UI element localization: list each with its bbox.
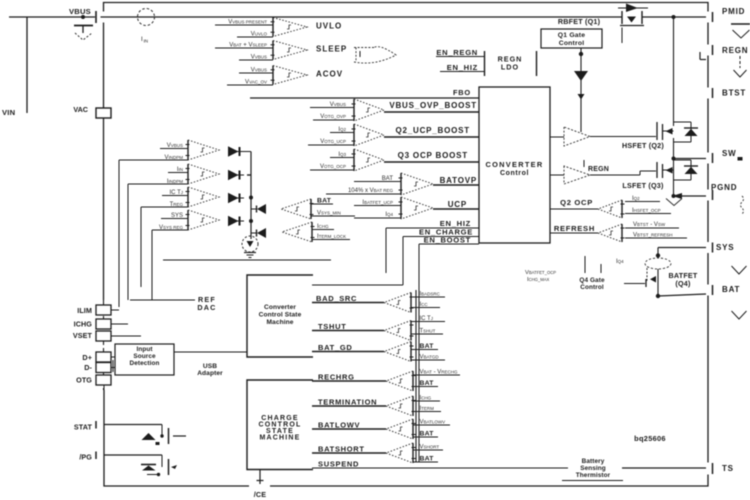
svg-text:VOTG_UCP: VOTG_UCP bbox=[320, 139, 346, 145]
wire SW stub bbox=[738, 157, 743, 161]
svg-text:HSFET (Q2): HSFET (Q2) bbox=[622, 141, 664, 150]
svg-text:SYS: SYS bbox=[716, 243, 734, 252]
box Q1 Gate Control bbox=[541, 29, 602, 48]
svg-text:LDO: LDO bbox=[501, 63, 519, 72]
comparator Q3 OCP BOOST bbox=[353, 149, 355, 171]
wire VBUS rail bbox=[101, 16, 623, 18]
svg-text:BAT: BAT bbox=[722, 285, 740, 294]
comparator VBUS_OVP_BOOST bbox=[353, 99, 355, 121]
svg-text:VAC: VAC bbox=[73, 105, 88, 114]
svg-text:OTG: OTG bbox=[76, 376, 92, 385]
pin OTG bbox=[96, 375, 111, 385]
svg-text:VBTST - VSW: VBTST - VSW bbox=[633, 222, 666, 228]
svg-text:BTST: BTST bbox=[722, 89, 746, 98]
transistor Q2 HSFET bbox=[656, 122, 658, 140]
svg-text:Q1 Gate: Q1 Gate bbox=[558, 32, 585, 39]
pin BAT bbox=[706, 285, 711, 296]
current source bias bbox=[242, 236, 258, 252]
svg-text:VBATFET_OCP: VBATFET_OCP bbox=[525, 270, 556, 276]
comparator TERMINATION bbox=[412, 396, 414, 416]
pin PGND bbox=[706, 190, 711, 201]
svg-text:VOTG_OCP: VOTG_OCP bbox=[320, 164, 346, 170]
svg-text:Control: Control bbox=[500, 170, 529, 177]
wire BAT sense horizontal bbox=[163, 259, 331, 261]
comparator BATLOWV bbox=[412, 419, 414, 439]
comparator VSYSMIN bbox=[187, 210, 189, 230]
wire STAT bbox=[104, 424, 162, 426]
svg-text:Sensing: Sensing bbox=[580, 465, 606, 472]
box Q4 Gate Control bbox=[584, 256, 586, 273]
svg-text:UCP: UCP bbox=[448, 200, 467, 209]
wire TS sense bbox=[622, 467, 706, 469]
svg-text:Adapter: Adapter bbox=[197, 370, 223, 377]
body diode Q2 bbox=[674, 121, 692, 123]
driver HSFET buffer bbox=[564, 127, 590, 146]
svg-text:MACHINE: MACHINE bbox=[259, 435, 300, 442]
svg-text:VBUS_OVP_BOOST: VBUS_OVP_BOOST bbox=[389, 101, 477, 110]
comparator RECHRG bbox=[412, 371, 414, 391]
svg-text:REGN: REGN bbox=[722, 46, 748, 55]
svg-text:TSHUT: TSHUT bbox=[318, 322, 347, 331]
node BATFET drain bbox=[656, 253, 660, 257]
capacitor on PMID bbox=[731, 23, 750, 25]
wire to PGND pin bbox=[674, 195, 707, 197]
svg-text:bq25606: bq25606 bbox=[634, 434, 666, 443]
svg-text:/CE: /CE bbox=[254, 490, 267, 499]
svg-text:USB: USB bbox=[203, 363, 217, 370]
svg-text:BAT: BAT bbox=[420, 343, 435, 350]
box Charge Control State Machine bbox=[247, 380, 313, 470]
comparator VINDPM bbox=[187, 140, 189, 160]
wire PMID to Q2 drain bbox=[673, 17, 675, 126]
transistor Q3 LSFET bbox=[656, 162, 658, 178]
svg-text:FBO: FBO bbox=[453, 88, 471, 97]
current flow arrow bbox=[618, 7, 648, 9]
pin PMID bbox=[706, 12, 711, 23]
pin SYS bbox=[706, 242, 711, 253]
pin BTST bbox=[706, 88, 711, 99]
comparator TSHUT bbox=[410, 321, 412, 341]
comparator UCP bbox=[400, 197, 402, 219]
wire VIN vertical bbox=[26, 17, 28, 113]
box Input Source Detection bbox=[115, 344, 174, 375]
svg-text:IQ4: IQ4 bbox=[385, 212, 393, 218]
body diode Q3 bbox=[674, 159, 692, 161]
svg-text:CONVERTER: CONVERTER bbox=[485, 160, 543, 169]
svg-text:BATLOWV: BATLOWV bbox=[318, 421, 360, 430]
wire SYS to BATFET bbox=[658, 247, 706, 249]
svg-text:SLEEP: SLEEP bbox=[316, 45, 347, 54]
svg-text:ILIM: ILIM bbox=[77, 306, 92, 315]
pin SW bbox=[706, 153, 711, 164]
pin VSET bbox=[96, 331, 111, 341]
svg-text:RECHRG: RECHRG bbox=[318, 373, 355, 382]
svg-text:Control: Control bbox=[580, 284, 604, 291]
driver LSFET buffer bbox=[564, 166, 590, 184]
svg-text:EN_BOOST: EN_BOOST bbox=[424, 236, 471, 245]
comparator BATSHORT bbox=[412, 443, 414, 463]
svg-text:Q2_UCP_BOOST: Q2_UCP_BOOST bbox=[395, 126, 470, 135]
wire Q2 source to SW bbox=[673, 138, 675, 196]
svg-text:ICHG_MAX: ICHG_MAX bbox=[527, 277, 550, 283]
svg-text:VSET: VSET bbox=[73, 331, 93, 340]
wire EN_BOOST down bbox=[418, 244, 420, 462]
svg-text:TERMINATION: TERMINATION bbox=[318, 398, 377, 407]
wire VIN to VBUS bbox=[9, 16, 95, 18]
svg-text:UVLO: UVLO bbox=[316, 22, 342, 31]
svg-text:BATOVP: BATOVP bbox=[440, 176, 477, 185]
svg-text:Detection: Detection bbox=[129, 360, 159, 367]
svg-text:104% x VBAT REG: 104% x VBAT REG bbox=[348, 188, 394, 194]
box REGN LDO bbox=[484, 51, 486, 76]
pin D- bbox=[96, 363, 111, 373]
wire bus REF bbox=[151, 230, 153, 300]
gate OR sleep-logic bbox=[354, 47, 396, 63]
wire detection to CCSM bbox=[174, 351, 247, 353]
comparator Q2 OCP bbox=[621, 200, 623, 218]
battery on BAT bbox=[732, 311, 747, 319]
wire PG bbox=[104, 454, 162, 456]
diode OR VSYSMIN bbox=[228, 216, 239, 227]
node SW junction bbox=[672, 157, 676, 161]
svg-text:Thermistor: Thermistor bbox=[576, 472, 611, 479]
svg-text:Converter: Converter bbox=[264, 304, 296, 311]
svg-text:Battery: Battery bbox=[582, 458, 605, 465]
pin ILIM bbox=[96, 305, 111, 315]
wire HSFET gate bbox=[590, 136, 656, 138]
diode OR IINDPM bbox=[228, 170, 239, 181]
svg-text:Source: Source bbox=[133, 353, 156, 360]
comparator ACOV bbox=[272, 66, 274, 85]
svg-text:D-: D- bbox=[84, 363, 92, 372]
wire bus ILIM bbox=[118, 160, 120, 307]
svg-text:Q2 OCP: Q2 OCP bbox=[560, 198, 593, 207]
wire REF DAC link bbox=[130, 299, 195, 301]
ground mark PGND bbox=[666, 199, 682, 206]
svg-text:IN: IN bbox=[144, 39, 149, 44]
svg-text:SW: SW bbox=[722, 149, 737, 158]
svg-text:Q4 Gate: Q4 Gate bbox=[579, 277, 605, 284]
box Converter Control bbox=[479, 87, 550, 243]
svg-text:BAT_GD: BAT_GD bbox=[318, 343, 352, 352]
current sense I_Q4 bbox=[645, 258, 671, 269]
thermistor squiggle bbox=[741, 196, 744, 214]
pin VBUS bbox=[98, 12, 105, 23]
svg-text:LSFET (Q3): LSFET (Q3) bbox=[622, 181, 664, 190]
pin REGN bbox=[706, 45, 711, 56]
svg-text:EN_HIZ: EN_HIZ bbox=[447, 63, 478, 72]
comparator BATOVP bbox=[400, 173, 402, 195]
svg-text:IQ4: IQ4 bbox=[616, 259, 624, 265]
current source I_IN bbox=[138, 9, 155, 26]
wire bus VSET bbox=[140, 207, 142, 287]
wire bus ICHG bbox=[127, 184, 129, 300]
comparator BAD_SRC bbox=[410, 293, 412, 313]
wire D- to detection bbox=[111, 367, 115, 369]
wire EN_HIZ down bbox=[385, 228, 387, 273]
pin CE bbox=[259, 469, 261, 484]
wire OTG stub bbox=[103, 385, 105, 390]
comparator SLEEP bbox=[272, 41, 274, 60]
svg-text:D+: D+ bbox=[82, 353, 92, 362]
svg-text:PMID: PMID bbox=[722, 7, 745, 16]
wire diode bus bbox=[250, 152, 252, 240]
comparator Q2_UCP_BOOST bbox=[353, 124, 355, 146]
node PMID junction bbox=[672, 15, 676, 19]
comparator TREG bbox=[187, 187, 189, 207]
diode steer A bbox=[257, 204, 266, 214]
comparator BAT loop bbox=[310, 199, 312, 219]
node BATFET source bbox=[656, 294, 660, 298]
wire EN_CHARGE down bbox=[402, 237, 404, 286]
comparator BAT_GD bbox=[410, 342, 412, 362]
wire D+ to detection bbox=[111, 356, 115, 358]
svg-text:Control: Control bbox=[559, 40, 585, 47]
svg-text:BAT: BAT bbox=[420, 380, 435, 387]
svg-text:BATSHORT: BATSHORT bbox=[318, 445, 365, 454]
svg-text:ACOV: ACOV bbox=[316, 70, 343, 79]
transistor Q1 RBFET bbox=[621, 11, 623, 24]
box Converter Control State Machine bbox=[247, 275, 313, 357]
svg-text:Machine: Machine bbox=[266, 319, 293, 326]
ground below C-VBUS bbox=[75, 33, 92, 40]
diode REGN-BTST bootstrap bbox=[574, 71, 588, 81]
wire to SW pin bbox=[674, 158, 707, 160]
svg-text:Control State: Control State bbox=[259, 312, 302, 319]
svg-text:TS: TS bbox=[722, 464, 734, 473]
svg-text:Q3 OCP BOOST: Q3 OCP BOOST bbox=[398, 151, 468, 160]
wire Q1 gate drive bbox=[579, 52, 583, 56]
comparator IINDPM bbox=[187, 164, 189, 184]
ground bias bbox=[244, 252, 256, 254]
svg-text:(Q4): (Q4) bbox=[675, 279, 691, 288]
svg-text:BAT: BAT bbox=[420, 431, 435, 438]
node VBUS junction bbox=[81, 15, 85, 19]
load on SYS bbox=[732, 266, 747, 274]
pin D+ bbox=[96, 352, 111, 362]
svg-text:BAT: BAT bbox=[420, 456, 435, 463]
comparator ICHG loop bbox=[311, 222, 313, 242]
wire BAT bus vertical bbox=[415, 290, 417, 462]
svg-text:/PG: /PG bbox=[79, 453, 92, 462]
wire Q1 to PMID bbox=[642, 16, 706, 18]
svg-text:STAT: STAT bbox=[74, 423, 93, 432]
pin TS bbox=[706, 463, 711, 475]
comparator REFRESH bbox=[621, 224, 623, 242]
diode OR VINDPM bbox=[228, 146, 239, 157]
svg-text:EN_REGN: EN_REGN bbox=[436, 48, 478, 57]
pin ICHG bbox=[96, 319, 111, 329]
pin PG bbox=[95, 452, 97, 460]
svg-text:PGND: PGND bbox=[711, 183, 737, 192]
svg-text:VOTG_OVP: VOTG_OVP bbox=[320, 114, 346, 120]
IC boundary box bbox=[104, 3, 709, 487]
svg-text:BAD_SRC: BAD_SRC bbox=[316, 294, 357, 303]
transistor Q4 BATFET bbox=[646, 268, 648, 282]
svg-text:Input: Input bbox=[136, 346, 153, 353]
wire BATFET to BAT pin bbox=[658, 294, 706, 296]
diode steer B bbox=[257, 228, 266, 238]
wire LSFET gate bbox=[590, 174, 640, 176]
wire FBO bbox=[250, 97, 479, 99]
pin REGN notch bbox=[699, 52, 701, 60]
svg-text:REFRESH: REFRESH bbox=[554, 224, 595, 233]
diode OR TREG bbox=[228, 193, 239, 204]
transistor PG driver bbox=[141, 464, 156, 466]
svg-text:BAT: BAT bbox=[317, 198, 332, 205]
pin STAT bbox=[95, 421, 97, 429]
transistor STAT driver bbox=[142, 433, 156, 440]
comparator UVLO bbox=[272, 18, 274, 37]
svg-text:DAC: DAC bbox=[197, 303, 216, 312]
wire REGN external bbox=[739, 56, 741, 68]
svg-text:REGN: REGN bbox=[588, 166, 609, 173]
svg-text:SUSPEND: SUSPEND bbox=[318, 460, 359, 469]
svg-text:VBUS: VBUS bbox=[69, 7, 91, 16]
svg-text:ICHG: ICHG bbox=[74, 320, 93, 329]
pin VAC bbox=[96, 108, 111, 118]
svg-text:RBFET (Q1): RBFET (Q1) bbox=[558, 17, 601, 26]
svg-text:VIN: VIN bbox=[2, 108, 15, 117]
node PGND junction bbox=[672, 194, 676, 198]
capacitor C-VBUS bbox=[74, 25, 93, 27]
